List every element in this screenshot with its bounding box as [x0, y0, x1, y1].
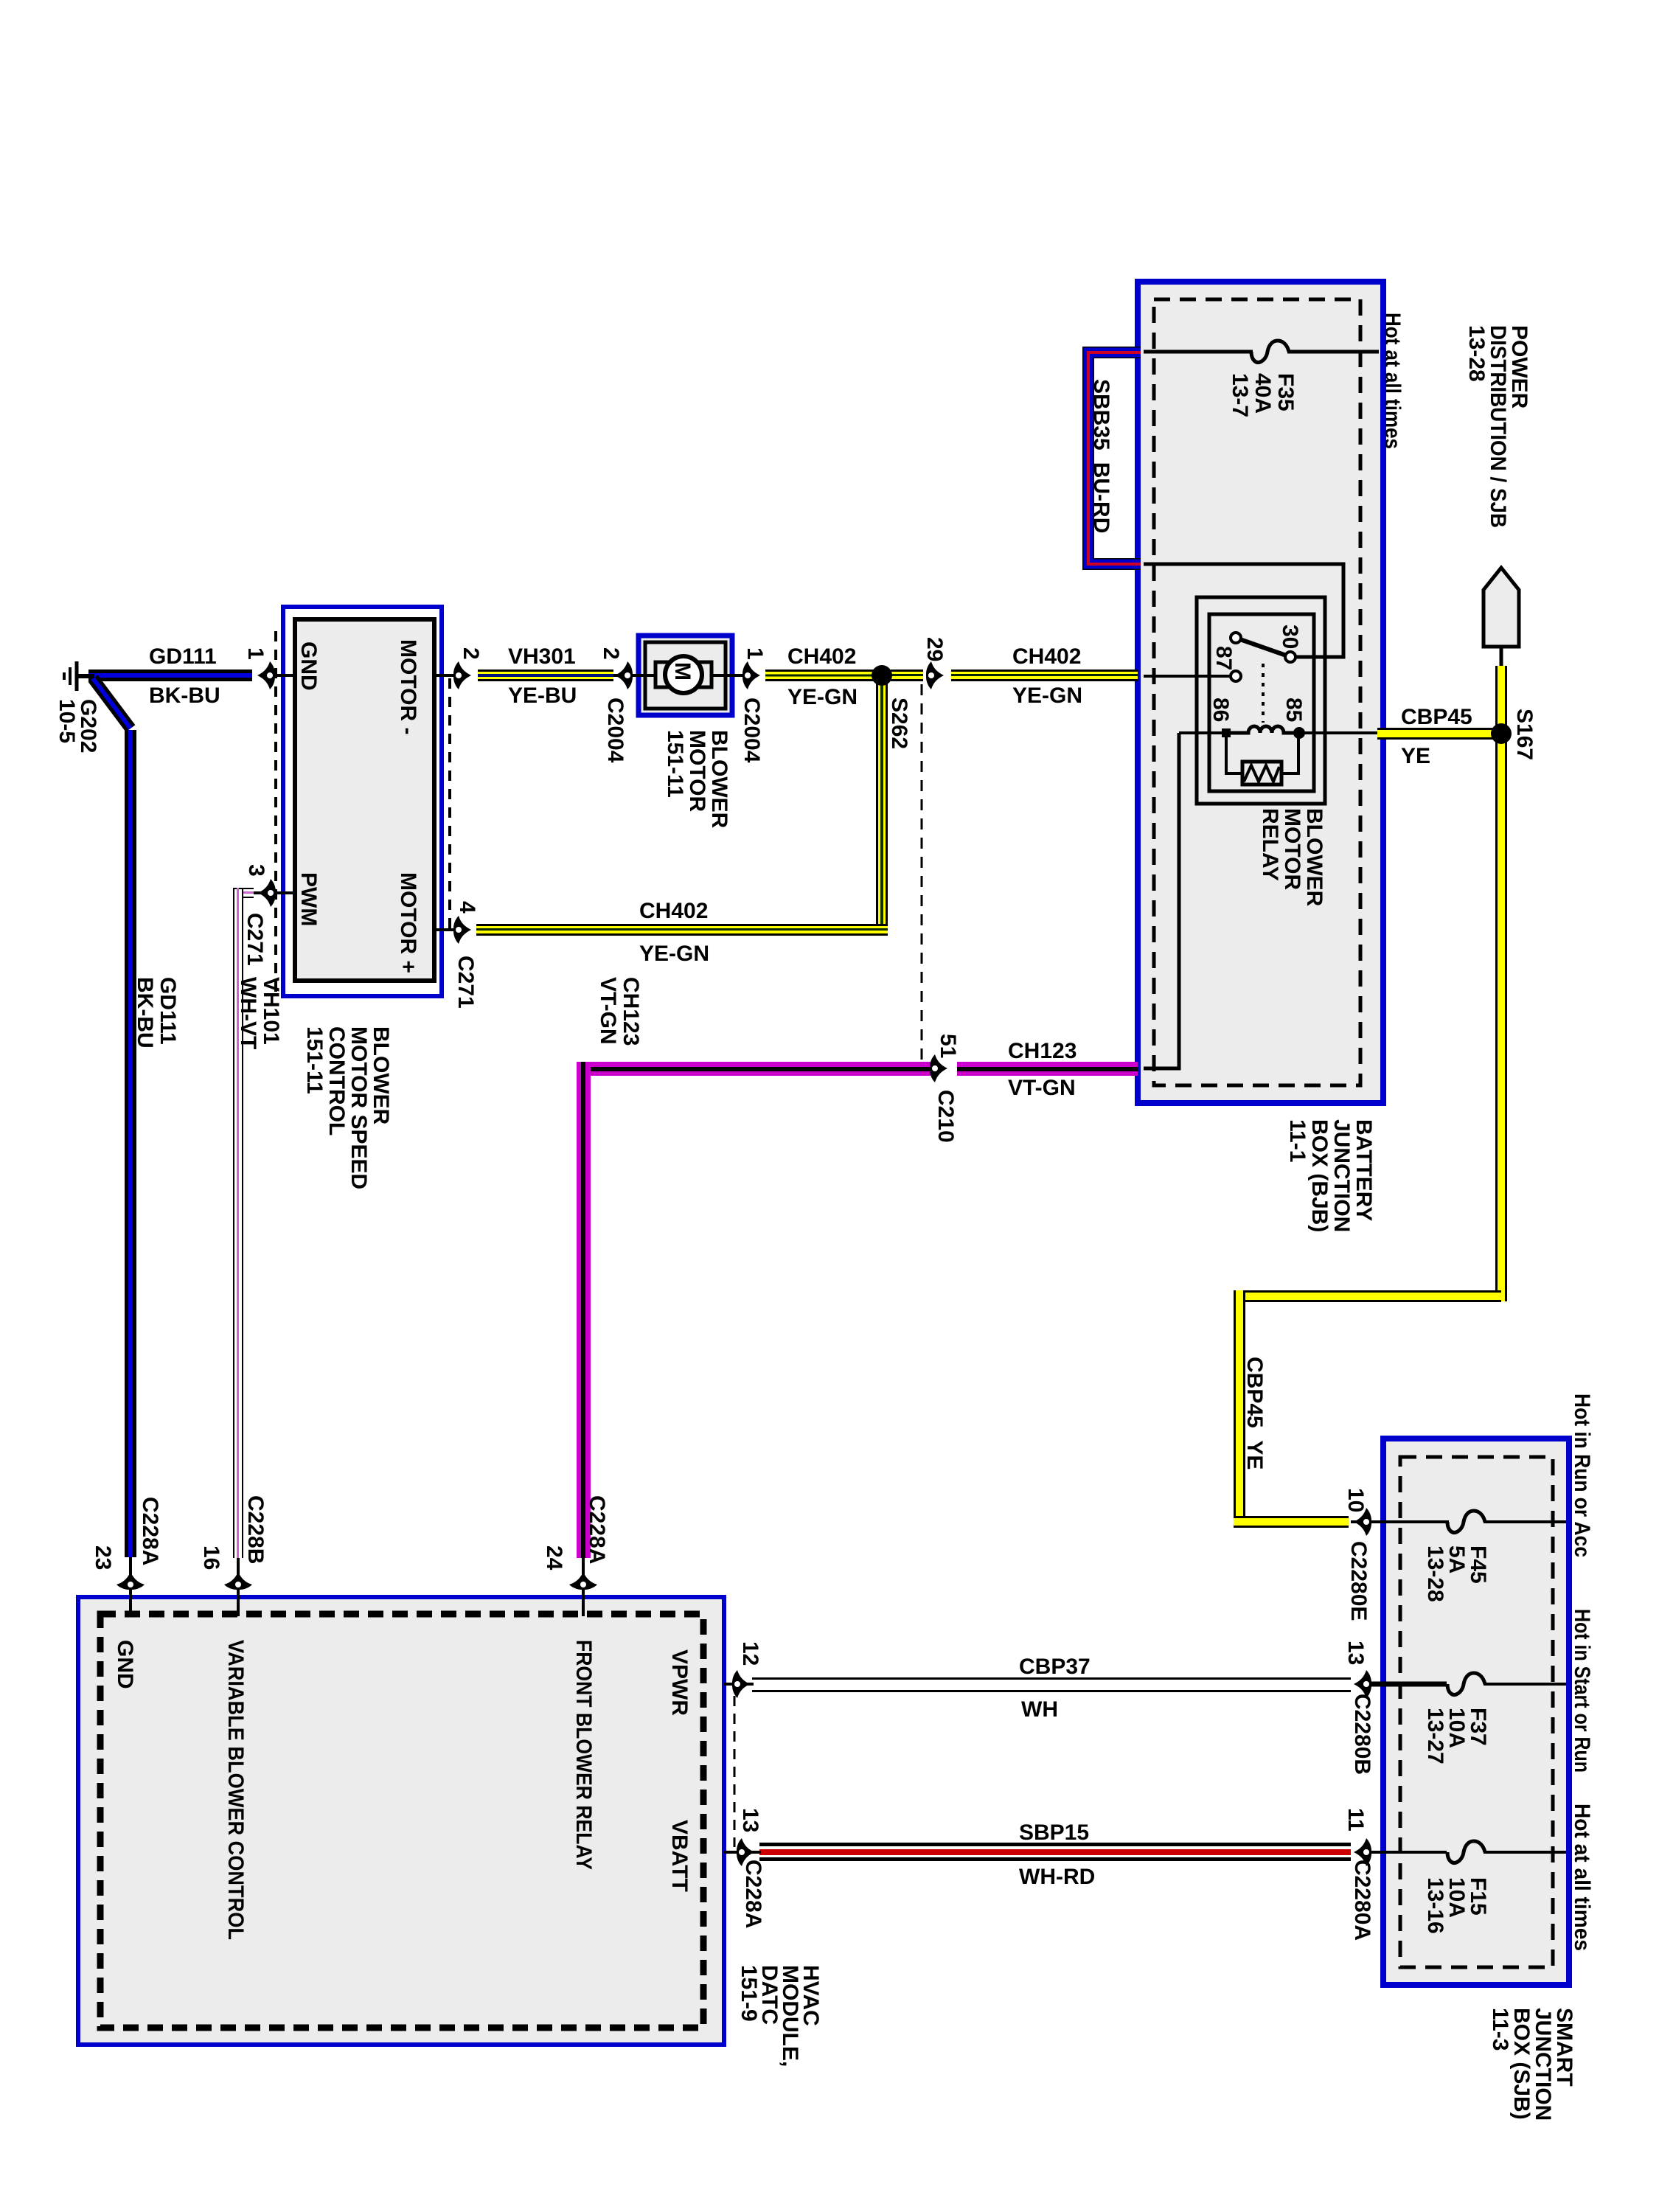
- svg-text:BK-BU: BK-BU: [149, 684, 220, 708]
- svg-text:VT-GN: VT-GN: [1008, 1076, 1076, 1100]
- arrow motor pin 2: [615, 661, 633, 689]
- svg-text:30: 30: [1278, 625, 1302, 649]
- wire CH402 YE-GN (arrow 29 to BJB): [951, 669, 1138, 681]
- svg-text:23: 23: [91, 1545, 115, 1570]
- connector C210 dashed boundary: [921, 684, 923, 1062]
- svg-text:FRONT BLOWER RELAY: FRONT BLOWER RELAY: [571, 1640, 596, 1870]
- fuse F35 line left: [1144, 350, 1253, 354]
- wire VH101 WH-VT corner at pin 3: [233, 888, 254, 898]
- connector C271 dashed boundary right: [448, 678, 451, 933]
- relay pin 85 line to BJB edge: [1299, 731, 1380, 734]
- motor brush left: [655, 662, 673, 687]
- svg-text:CH402: CH402: [1012, 644, 1081, 669]
- relay suppression resistor box: [1242, 762, 1281, 785]
- arrow SJB pin 10: [1354, 1508, 1371, 1536]
- arrow SJB pin 13: [1354, 1670, 1371, 1698]
- svg-text:C2280B: C2280B: [1350, 1694, 1374, 1775]
- svg-text:24: 24: [542, 1545, 566, 1571]
- svg-text:YE-GN: YE-GN: [639, 942, 709, 966]
- wire CH402 YE-GN (motor to S262): [765, 669, 874, 681]
- svg-text:SBP15: SBP15: [1019, 1820, 1089, 1845]
- svg-text:85: 85: [1281, 698, 1306, 722]
- blower motor box: [639, 636, 732, 715]
- svg-text:CH402: CH402: [787, 644, 856, 669]
- resistor zigzag: [1244, 765, 1279, 782]
- svg-text:2: 2: [459, 647, 483, 660]
- svg-text:MOTOR -: MOTOR -: [396, 639, 420, 734]
- svg-text:12: 12: [738, 1641, 762, 1666]
- pin 24 lead line: [582, 1558, 585, 1616]
- relay contact 30: [1285, 652, 1295, 662]
- svg-text:CH123: CH123: [1008, 1039, 1077, 1063]
- relay coil between 86 and 85: [1229, 726, 1299, 733]
- relay pin 86 line to left: [1179, 731, 1224, 734]
- svg-text:86: 86: [1208, 698, 1233, 722]
- blower motor relay inner box: [1209, 614, 1314, 791]
- junction S262 dot: [872, 665, 892, 686]
- svg-text:C228A: C228A: [585, 1495, 609, 1564]
- wire CBP45 YE (BJB to S167): [1377, 728, 1501, 740]
- motor pin 2 lead: [613, 674, 645, 677]
- relay actuator dotted link: [1262, 664, 1265, 723]
- svg-text:11: 11: [1343, 1808, 1368, 1832]
- svg-text:2: 2: [599, 647, 623, 660]
- wire VH301 YE-BU: [478, 669, 613, 681]
- wire CH402 YE-GN (S262 to C210 arrow): [891, 669, 923, 681]
- svg-text:YE-GN: YE-GN: [1012, 684, 1082, 708]
- arrow HVAC pin 12: [732, 1670, 750, 1698]
- pin 12 lead line: [724, 1683, 754, 1686]
- relay arm pivot contact: [1231, 633, 1241, 643]
- fuse F37 element: [1447, 1673, 1485, 1694]
- relay pin 86 junction square: [1222, 728, 1231, 737]
- arrow pin 4 speed control: [453, 916, 471, 944]
- arrow 29 at C210: [926, 661, 944, 689]
- motor pin 1 lead: [726, 674, 746, 677]
- svg-text:M: M: [670, 662, 695, 681]
- svg-text:WH: WH: [1021, 1697, 1058, 1722]
- wire VH101 WH-VT vertical to HVAC pin 16: [233, 888, 243, 1558]
- svg-text:87: 87: [1211, 646, 1236, 670]
- connector C271 dashed boundary left: [274, 631, 277, 995]
- svg-text:13: 13: [1343, 1641, 1368, 1665]
- arrow 51 at C210: [930, 1054, 947, 1082]
- svg-text:VPWR: VPWR: [667, 1649, 692, 1716]
- wire GD111 BK-BU vertical to HVAC pin 23: [125, 730, 136, 1557]
- pin 11 lead line: [1360, 1851, 1447, 1854]
- blower motor speed control module box: [283, 607, 442, 996]
- BJB internal line to relay pin 86 (CH123): [1144, 733, 1179, 1068]
- svg-text:13: 13: [738, 1808, 762, 1832]
- resistor parallel connection wires: [1226, 733, 1298, 773]
- wire CH402 YE-GN vertical under S262: [876, 675, 888, 936]
- wire CH123 VT-GN vertical to HVAC pin 24: [577, 1062, 591, 1558]
- svg-text:GND: GND: [296, 641, 321, 691]
- arrow pin 1 speed control: [257, 661, 275, 689]
- wire CBP45 YE stub into pin 10: [1234, 1516, 1349, 1528]
- fuse F15 line right: [1484, 1851, 1566, 1854]
- svg-text:C228A: C228A: [138, 1497, 162, 1565]
- svg-text:C210: C210: [933, 1090, 958, 1143]
- svg-text:CH402: CH402: [639, 899, 708, 923]
- wire CH402 YE-GN horizontal to pin 4: [476, 924, 888, 936]
- svg-text:29: 29: [922, 637, 947, 661]
- pin 1 lead line: [267, 674, 295, 677]
- pin 3 lead line: [249, 891, 295, 894]
- svg-text:51: 51: [936, 1034, 960, 1058]
- pin 16 lead line: [237, 1558, 240, 1616]
- svg-text:CBP45: CBP45: [1401, 705, 1472, 729]
- pentagon stem: [1500, 647, 1503, 667]
- svg-text:WH-RD: WH-RD: [1019, 1865, 1095, 1889]
- svg-text:VH101WH-VT: VH101WH-VT: [236, 977, 283, 1049]
- svg-text:C228A: C228A: [741, 1860, 765, 1928]
- svg-text:CBP37: CBP37: [1019, 1655, 1091, 1679]
- wire CH123 VT-GN (corner to arrow 51): [577, 1062, 932, 1076]
- wire SBB35 BU-RD loop: [1088, 352, 1141, 564]
- svg-text:Hot at all times: Hot at all times: [1570, 1804, 1594, 1951]
- motor internal lead line: [645, 674, 726, 677]
- wire CBP37 WH: [752, 1677, 1351, 1692]
- svg-text:PWM: PWM: [296, 872, 321, 926]
- relay pin 85 junction dot: [1293, 727, 1305, 739]
- svg-text:VH301: VH301: [508, 644, 576, 669]
- svg-text:CBP45 YE: CBP45 YE: [1242, 1357, 1267, 1470]
- svg-text:F3540A13-7: F3540A13-7: [1228, 373, 1298, 417]
- smart junction box (SJB): [1383, 1439, 1569, 1985]
- fuse F45 element: [1447, 1511, 1485, 1532]
- svg-text:CH123VT-GN: CH123VT-GN: [596, 977, 643, 1046]
- svg-text:1: 1: [742, 647, 767, 660]
- svg-text:16: 16: [199, 1545, 223, 1570]
- wire CH123 VT-GN (arrow to BJB): [957, 1062, 1138, 1076]
- pin 13 HVAC lead line: [724, 1851, 761, 1854]
- dashed connector line pins 12-13: [734, 1696, 736, 1847]
- wire GD111 BK-BU diagonal bend: [93, 678, 131, 728]
- svg-text:C271: C271: [453, 956, 478, 1009]
- svg-text:S262: S262: [887, 698, 911, 749]
- battery junction box (BJB): [1138, 282, 1383, 1103]
- svg-text:VBATT: VBATT: [667, 1820, 692, 1892]
- arrow motor pin 1: [742, 661, 760, 689]
- arrow HVAC pin 13: [737, 1838, 754, 1866]
- wire SBP15 WH-RD: [759, 1843, 1351, 1861]
- svg-text:C271: C271: [243, 913, 267, 966]
- pin 4 lead line: [433, 928, 457, 931]
- svg-text:3: 3: [244, 864, 268, 877]
- svg-text:S167: S167: [1512, 709, 1537, 760]
- svg-text:YE-GN: YE-GN: [787, 685, 858, 709]
- pin 10 lead line: [1351, 1520, 1449, 1523]
- relay switch arm: [1236, 638, 1290, 657]
- blower motor relay outer box: [1197, 597, 1325, 804]
- svg-text:GND: GND: [113, 1640, 137, 1689]
- BJB internal line from CH402 to relay pin 87: [1144, 675, 1231, 678]
- svg-text:YE: YE: [1401, 744, 1430, 768]
- junction S167 dot: [1491, 723, 1512, 744]
- svg-text:VARIABLE BLOWER CONTROL: VARIABLE BLOWER CONTROL: [223, 1640, 248, 1940]
- svg-text:Hot at all times: Hot at all times: [1380, 313, 1405, 449]
- svg-text:YE-BU: YE-BU: [508, 684, 577, 708]
- relay contact 87: [1231, 671, 1241, 681]
- wire CBP45 YE vertical to SJB: [1234, 1290, 1245, 1528]
- svg-text:GD111BK-BU: GD111BK-BU: [133, 977, 180, 1048]
- fuse F37 line right: [1484, 1683, 1566, 1686]
- arrow HVAC pin 24: [569, 1572, 597, 1590]
- arrow SJB pin 11: [1354, 1838, 1371, 1866]
- pin 13 SJB lead line (thick): [1360, 1682, 1447, 1687]
- svg-text:C2004: C2004: [603, 698, 627, 763]
- pin 23 lead line: [129, 1557, 132, 1616]
- svg-text:C2004: C2004: [740, 698, 764, 763]
- HVAC module box: [78, 1597, 724, 2045]
- wire CBP45 YE vertical (pentagon through S167 down): [1495, 666, 1507, 1301]
- arrow HVAC pin 16: [224, 1572, 252, 1590]
- svg-text:Hot in Run or Acc: Hot in Run or Acc: [1570, 1394, 1594, 1557]
- arrow pin 3 speed control: [258, 879, 276, 907]
- svg-text:10: 10: [1343, 1488, 1368, 1512]
- svg-text:Hot in Start or Run: Hot in Start or Run: [1570, 1609, 1594, 1773]
- wire GD111 BK-BU horizontal (ground to pin 1): [88, 669, 252, 681]
- svg-text:C2280E: C2280E: [1346, 1541, 1371, 1621]
- svg-text:C2280A: C2280A: [1350, 1860, 1374, 1941]
- off-page connector pentagon: [1484, 568, 1519, 647]
- svg-text:GD111: GD111: [149, 644, 217, 669]
- arrow HVAC pin 23: [116, 1572, 145, 1590]
- fuse F15 element: [1447, 1841, 1485, 1863]
- pin 2 lead line: [433, 674, 459, 677]
- svg-text:1: 1: [243, 647, 268, 660]
- fuse F45 line right: [1484, 1520, 1566, 1523]
- fuse F35 element: [1251, 341, 1289, 362]
- svg-text:4: 4: [455, 901, 479, 914]
- arrow pin 2 speed control: [453, 661, 471, 689]
- BJB internal line F35 to relay pin 30: [1144, 564, 1343, 657]
- wire CBP45 YE horizontal jog: [1234, 1290, 1501, 1302]
- motor brush right: [694, 662, 712, 687]
- svg-text:MOTOR +: MOTOR +: [396, 872, 420, 973]
- fuse F35 line right: [1287, 350, 1379, 354]
- svg-text:C228B: C228B: [243, 1495, 268, 1564]
- motor circle: [665, 656, 702, 693]
